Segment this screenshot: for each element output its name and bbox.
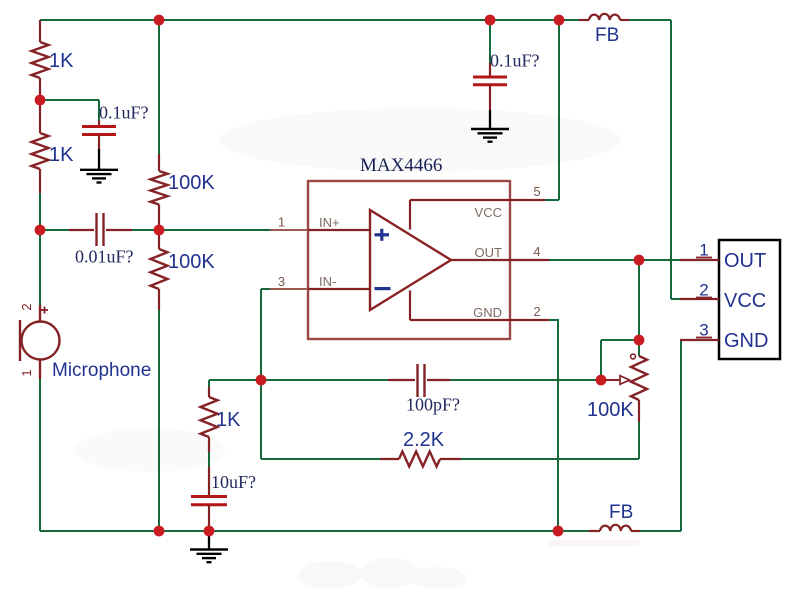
svg-text:VCC: VCC bbox=[475, 205, 502, 220]
svg-text:1K: 1K bbox=[49, 50, 74, 72]
svg-text:0.01uF?: 0.01uF? bbox=[75, 247, 134, 267]
svg-text:0.1uF?: 0.1uF? bbox=[99, 103, 149, 123]
svg-text:2.2K: 2.2K bbox=[403, 429, 445, 451]
svg-text:0.1uF?: 0.1uF? bbox=[490, 51, 540, 71]
svg-text:100K: 100K bbox=[587, 399, 634, 421]
svg-text:100K: 100K bbox=[168, 251, 215, 273]
svg-text:FB: FB bbox=[609, 502, 633, 523]
svg-text:VCC: VCC bbox=[724, 290, 766, 312]
svg-text:1K: 1K bbox=[216, 409, 241, 431]
svg-text:2: 2 bbox=[699, 281, 708, 300]
svg-text:4: 4 bbox=[533, 244, 540, 259]
svg-text:2: 2 bbox=[533, 304, 540, 319]
svg-text:2: 2 bbox=[19, 303, 34, 310]
svg-text:IN+: IN+ bbox=[319, 215, 340, 230]
svg-text:FB: FB bbox=[595, 25, 619, 46]
svg-text:1: 1 bbox=[19, 369, 34, 376]
svg-text:GND: GND bbox=[724, 330, 768, 352]
svg-text:1K: 1K bbox=[49, 144, 74, 166]
svg-text:100K: 100K bbox=[168, 172, 215, 194]
svg-text:3: 3 bbox=[699, 321, 708, 340]
svg-text:OUT: OUT bbox=[724, 250, 766, 272]
svg-text:Microphone: Microphone bbox=[52, 360, 151, 381]
svg-text:1: 1 bbox=[278, 215, 285, 230]
svg-text:3: 3 bbox=[278, 274, 285, 289]
svg-text:1: 1 bbox=[699, 241, 708, 260]
svg-text:GND: GND bbox=[473, 305, 502, 320]
svg-text:OUT: OUT bbox=[475, 245, 503, 260]
svg-text:10uF?: 10uF? bbox=[211, 472, 256, 492]
svg-text:MAX4466: MAX4466 bbox=[360, 155, 442, 176]
svg-text:100pF?: 100pF? bbox=[406, 395, 460, 415]
svg-text:5: 5 bbox=[533, 184, 540, 199]
svg-text:IN-: IN- bbox=[319, 274, 336, 289]
